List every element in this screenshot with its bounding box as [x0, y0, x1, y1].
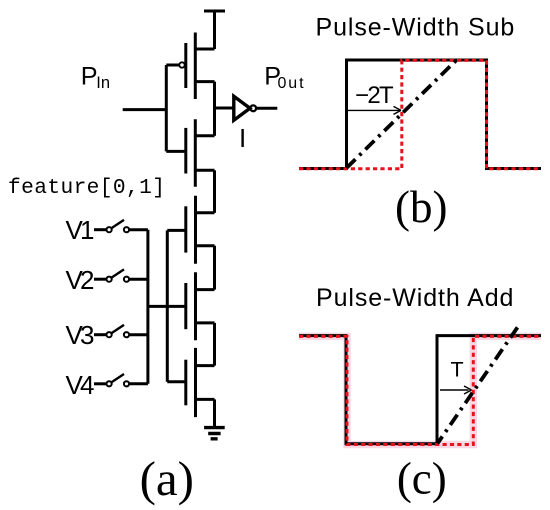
title Pulse-Width Sub	[316, 14, 516, 42]
node gate bus for P_In	[165, 65, 168, 151]
wire M3 source to M4 drain	[213, 246, 216, 290]
ground	[204, 428, 225, 439]
node switch bus	[146, 230, 149, 384]
label I	[239, 123, 246, 153]
label (a)	[140, 451, 194, 506]
svg-text:T: T	[451, 357, 464, 381]
svg-text:(b): (b)	[395, 182, 447, 232]
waveform c dash-dot diagonal	[438, 324, 520, 444]
label feature[0,1]	[8, 176, 165, 200]
VDD power symbol	[204, 11, 225, 49]
svg-text:V1: V1	[66, 215, 95, 245]
transistor M5	[167, 348, 214, 417]
svg-text:−2T: −2T	[355, 82, 394, 109]
waveform b dash-dot diagonal	[347, 60, 457, 168]
switch S3	[94, 325, 148, 337]
svg-text:feature[0,1]: feature[0,1]	[8, 176, 165, 200]
transistor M1 (PMOS)	[166, 33, 214, 100]
waveform c black pulse	[299, 336, 541, 444]
label P_In	[81, 62, 110, 92]
label P_Out	[264, 62, 305, 92]
wire M5 source to ground	[213, 399, 216, 427]
waveform c red dashed pulse	[299, 336, 541, 444]
svg-text:I: I	[239, 123, 246, 153]
label V1	[66, 215, 95, 245]
label -2T	[355, 82, 394, 109]
transistor M2 (NMOS)	[166, 119, 214, 187]
wire P_In	[123, 108, 167, 111]
wire M4 source to M5 drain	[213, 323, 216, 366]
svg-text:0ut: 0ut	[278, 75, 306, 92]
svg-text:P: P	[81, 62, 98, 90]
label (c)	[397, 454, 447, 504]
svg-text:In: In	[96, 74, 110, 92]
switch S1	[94, 220, 148, 232]
waveform c pink glow	[299, 336, 541, 444]
title Pulse-Width Add	[316, 284, 514, 312]
wire VDD to PMOS source	[195, 48, 214, 51]
svg-text:Pulse-Width Sub: Pulse-Width Sub	[316, 14, 516, 42]
waveform b red dashed pulse	[299, 60, 541, 168]
arrow -2T	[347, 106, 402, 114]
wire inverter output	[256, 107, 277, 110]
arrow T	[440, 386, 472, 394]
label V3	[66, 320, 95, 350]
transistor M4	[148, 272, 215, 340]
waveform b black pulse	[299, 60, 541, 169]
inverter U1	[234, 96, 256, 120]
wire M2 source to M3 drain	[213, 170, 216, 213]
transistor M3	[167, 196, 214, 264]
switch S4	[94, 374, 148, 386]
label T	[451, 357, 464, 381]
wire PMOS drain to NMOS drain	[213, 82, 216, 136]
label V2	[66, 265, 95, 295]
label (b)	[395, 182, 447, 232]
svg-text:V2: V2	[66, 265, 95, 295]
switch S2	[94, 269, 148, 281]
svg-text:Pulse-Width Add: Pulse-Width Add	[316, 284, 514, 312]
svg-text:(c): (c)	[397, 454, 447, 504]
node gate bus	[166, 230, 169, 381]
label V4	[66, 370, 95, 400]
svg-text:V4: V4	[66, 370, 95, 400]
wire to inverter input	[215, 107, 234, 110]
svg-text:(a): (a)	[140, 451, 194, 506]
svg-text:V3: V3	[66, 320, 95, 350]
